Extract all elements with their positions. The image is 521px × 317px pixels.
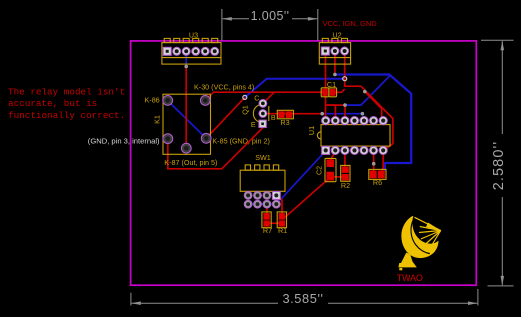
capacitor C2 <box>315 158 336 181</box>
U1 top pads <box>322 117 388 125</box>
svg-text:R6: R6 <box>373 178 382 187</box>
wire: blue net from via under U1 <box>345 75 390 105</box>
wire: red R1 to SW1 pad4 <box>278 196 283 214</box>
wire: red U2 pad3 down, loop to U1 pin14 <box>345 53 393 151</box>
wire: red branch via to U1 pin7 <box>365 92 383 121</box>
wire: red K-30 to C1 <box>205 92 322 100</box>
U1 bottom pads <box>322 146 388 154</box>
via R3 net left <box>320 112 324 116</box>
via pin7 branch <box>363 90 367 94</box>
wire: red U2 pad1 down through C1 to U1 pin1 <box>325 53 327 121</box>
capacitor C1 <box>321 80 336 97</box>
wire: red Q1 collector to K-30 line <box>263 92 274 103</box>
svg-text:accurate, but is: accurate, but is <box>8 98 97 109</box>
svg-text:R1: R1 <box>278 226 287 235</box>
resistor R3 <box>277 110 293 127</box>
wire: red R7 to SW1 <box>266 203 268 214</box>
wire: blue net GND horizontal to via <box>245 79 345 98</box>
svg-text:K-86: K-86 <box>145 96 160 105</box>
svg-text:K1: K1 <box>153 115 162 124</box>
wire: red U1 pin3 to R2 <box>344 150 346 167</box>
svg-text:K-87 (Out, pin 5): K-87 (Out, pin 5) <box>164 158 217 167</box>
wire: red K-85 to via <box>206 97 245 138</box>
svg-text:The relay model isn't: The relay model isn't <box>8 86 125 97</box>
svg-text:(GND, pin 3, internal): (GND, pin 3, internal) <box>88 137 160 146</box>
wire: blue SW1 to U1 pin1 diagonal <box>278 152 325 202</box>
svg-text:3.585'': 3.585'' <box>282 291 323 306</box>
via R6 net <box>372 162 376 166</box>
via IGN net <box>333 73 337 77</box>
svg-text:C1: C1 <box>327 80 336 89</box>
svg-text:E: E <box>251 120 256 129</box>
IC U1 <box>307 125 390 147</box>
wire: red C2 bottom to R2 bottom <box>331 176 344 178</box>
svg-text:C: C <box>254 93 259 102</box>
svg-text:2.580'': 2.580'' <box>491 141 507 191</box>
resistor R6 <box>369 169 386 187</box>
via GND net right <box>343 77 347 81</box>
wire: blue K-86 to K-85 diagonal <box>168 101 206 138</box>
wire: red U3 pad3 down to K-87 <box>185 67 187 149</box>
svg-text:K-30 (VCC, pins 4): K-30 (VCC, pins 4) <box>194 83 254 92</box>
via R3 net right <box>361 112 365 116</box>
svg-text:U2: U2 <box>332 31 341 40</box>
wire: red U1 pin7 to R6 right <box>382 150 383 171</box>
svg-text:R7: R7 <box>263 226 272 235</box>
svg-text:functionally correct.: functionally correct. <box>8 110 125 121</box>
wire: blue net R3 row <box>322 113 362 115</box>
wire: blue SW1 bottom row bus <box>248 203 276 205</box>
svg-text:U1: U1 <box>307 126 316 135</box>
logo TWAO satellite dish <box>398 216 440 270</box>
svg-text:R2: R2 <box>341 181 350 190</box>
svg-text:C2: C2 <box>315 166 324 175</box>
board outline <box>131 41 477 285</box>
switch SW1 <box>240 153 285 208</box>
dimension 1.005" (top) <box>222 9 318 41</box>
wire: red U2 pad2 stub to via <box>334 53 336 75</box>
wire: red U1 pin6 to R6 left <box>373 150 375 171</box>
svg-text:B: B <box>271 113 276 122</box>
wire: red R7-R1 bottom link <box>267 222 282 224</box>
svg-text:K-85 (GND, pin 2): K-85 (GND, pin 2) <box>212 136 270 145</box>
resistor R2 <box>341 165 350 189</box>
dimension 3.585" (bottom) <box>131 289 478 306</box>
resistor R7 <box>262 212 272 235</box>
svg-text:R3: R3 <box>280 118 289 127</box>
via under U1 <box>343 103 347 107</box>
wire: red C1 right pad join <box>335 89 344 92</box>
svg-text:TWAO: TWAO <box>397 273 423 283</box>
relay K1 <box>153 94 212 154</box>
svg-text:U3: U3 <box>189 30 198 39</box>
resistor R1 <box>277 212 287 235</box>
connector U3 <box>162 30 221 64</box>
svg-text:1.005'': 1.005'' <box>251 9 290 23</box>
wire: red C2 bottom to R1 diagonal <box>283 178 330 219</box>
transistor Q1 <box>241 93 276 129</box>
wire: blue net IGN from via to right side loop into R6 <box>335 75 411 171</box>
svg-text:Q1: Q1 <box>241 105 250 115</box>
wire: red horizontal feeding U1 pins 2,3 <box>326 105 336 121</box>
wire: blue U3 pad3 stub <box>185 53 187 67</box>
wire: red Q1 base through R3 to via <box>265 113 322 115</box>
via K-85 net <box>243 95 247 99</box>
svg-text:SW1: SW1 <box>255 153 271 162</box>
dimension 2.580" (right) <box>481 40 514 286</box>
connector U2 <box>319 31 350 65</box>
wire: red relay pad3 to Q1 emitter <box>168 124 262 169</box>
svg-text:VCC, IGN, GND: VCC, IGN, GND <box>323 19 378 28</box>
wire: red C2 top to U1 pin2 <box>330 152 335 161</box>
via at U3 pad3 trace <box>184 65 188 69</box>
